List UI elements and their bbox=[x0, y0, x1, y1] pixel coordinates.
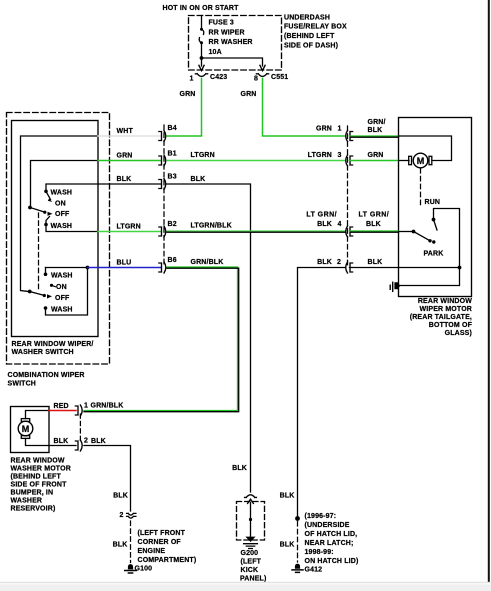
svg-text:(BEHIND LEFT: (BEHIND LEFT bbox=[284, 33, 335, 40]
upper switch link OFF to WASH bottom bbox=[46, 217, 50, 224]
svg-text:GRN: GRN bbox=[241, 91, 257, 98]
svg-text:(UNDERSIDE: (UNDERSIDE bbox=[305, 522, 350, 529]
combination switch label bbox=[8, 372, 85, 388]
rear window wiper motor box bbox=[399, 118, 472, 297]
svg-text:4: 4 bbox=[337, 221, 341, 228]
lower switch top rail bbox=[46, 267, 88, 269]
pin 1 label bbox=[190, 76, 194, 83]
junction node bbox=[200, 56, 204, 60]
wire pin4 black companion bbox=[351, 231, 399, 233]
fuse/relay box (dashed) bbox=[189, 16, 282, 71]
svg-text:BLK: BLK bbox=[232, 465, 247, 472]
label LTGRN bbox=[117, 224, 141, 231]
svg-text:BLK: BLK bbox=[368, 259, 383, 266]
internal wire washer feed bottom bbox=[46, 225, 98, 232]
label G412 bbox=[305, 567, 323, 574]
wiper motor M1 bbox=[409, 153, 432, 168]
upper switch arm bbox=[30, 208, 53, 216]
label LTGRN 3 bbox=[308, 152, 342, 159]
svg-text:C551: C551 bbox=[271, 74, 288, 81]
svg-text:UNDERDASH: UNDERDASH bbox=[284, 14, 330, 21]
internal wire motor+ to RED bbox=[26, 411, 50, 419]
svg-text:SIDE OF DASH): SIDE OF DASH) bbox=[284, 42, 338, 49]
svg-text:GRN: GRN bbox=[117, 153, 133, 160]
svg-text:GRN/BLK: GRN/BLK bbox=[91, 403, 124, 410]
wire GRN B4 to C423 bbox=[167, 135, 202, 137]
internal wire pin3 to motor left brush bbox=[399, 160, 410, 162]
svg-text:PANEL): PANEL) bbox=[240, 576, 266, 583]
wire BLK switch to B3 bbox=[98, 183, 161, 185]
connector C551 label bbox=[271, 74, 288, 81]
svg-text:B2: B2 bbox=[168, 221, 177, 228]
svg-text:WASH: WASH bbox=[51, 190, 73, 197]
wire BLK dashed to G100 bbox=[130, 521, 132, 563]
label BLK G100 upper bbox=[113, 493, 128, 500]
connector B1 bbox=[159, 151, 177, 167]
svg-text:RED: RED bbox=[54, 403, 69, 410]
lower switch contact WASH top bbox=[44, 268, 73, 280]
label G100 bbox=[135, 566, 153, 573]
internal wire to upper wiper pivot bbox=[31, 161, 99, 207]
wire WHT switch to B4 bbox=[98, 135, 161, 137]
pin 8 label bbox=[254, 76, 258, 83]
park switch arm bbox=[414, 232, 436, 244]
svg-text:2: 2 bbox=[337, 259, 341, 266]
svg-text:BLK: BLK bbox=[54, 438, 69, 445]
switch box label bbox=[12, 341, 94, 356]
inline connector C2 bbox=[127, 513, 136, 518]
svg-text:LT GRN/: LT GRN/ bbox=[306, 212, 337, 219]
label GRN/BLK after pin1 bbox=[368, 119, 386, 134]
label LTGRN after B1 bbox=[191, 152, 215, 159]
svg-text:BLK: BLK bbox=[191, 176, 206, 183]
washer motor M2 bbox=[18, 419, 33, 439]
internal wire pin4 to pivot bbox=[399, 231, 413, 233]
label GRN bbox=[117, 153, 133, 160]
wire GRN switch to B1 bbox=[98, 160, 161, 162]
svg-text:M: M bbox=[417, 156, 425, 166]
wire fuse to junction bbox=[201, 44, 203, 59]
svg-text:WASHER: WASHER bbox=[11, 498, 43, 505]
svg-text:BLU: BLU bbox=[117, 260, 132, 267]
connector C551 pin 8 cup bbox=[256, 74, 268, 77]
mechanical link motor to park switch bbox=[420, 169, 422, 208]
upper switch contact WASH bottom bbox=[44, 223, 72, 230]
connector pin 3 bbox=[346, 155, 353, 166]
svg-text:B1: B1 bbox=[168, 151, 177, 158]
label G200 bbox=[240, 550, 266, 583]
wire into G200 box bbox=[250, 503, 252, 537]
label BLU bbox=[117, 260, 132, 267]
wire BLK dashed to G412 bbox=[297, 522, 299, 563]
wire BLK pin2 internal bbox=[350, 267, 460, 269]
lower switch contact WASH bottom bbox=[44, 306, 73, 313]
svg-text:BLK: BLK bbox=[91, 438, 106, 445]
connector C423 label bbox=[210, 74, 227, 81]
svg-text:G100: G100 bbox=[135, 566, 153, 573]
rear window washer motor box bbox=[11, 407, 50, 453]
svg-text:CORNER OF: CORNER OF bbox=[138, 539, 182, 546]
label RED bbox=[54, 403, 69, 410]
svg-text:(BEHIND LEFT: (BEHIND LEFT bbox=[11, 474, 62, 481]
svg-text:GRN: GRN bbox=[180, 91, 196, 98]
svg-text:RUN: RUN bbox=[425, 199, 441, 206]
wire from box top to fuse bbox=[201, 16, 203, 29]
svg-text:KICK: KICK bbox=[241, 567, 259, 574]
upper switch contact WASH top bbox=[44, 190, 72, 197]
label PARK bbox=[424, 251, 444, 258]
svg-text:M: M bbox=[22, 424, 30, 434]
wire GRN/BLK pin1 (black companion) bbox=[351, 136, 399, 138]
lower switch contact OFF label bbox=[55, 295, 70, 302]
upper switch pivot node bbox=[28, 206, 32, 210]
label BLK 2 bbox=[317, 259, 341, 266]
svg-text:REAR WINDOW: REAR WINDOW bbox=[11, 458, 65, 465]
label GRN right bbox=[241, 91, 257, 98]
svg-text:B3: B3 bbox=[168, 174, 177, 181]
svg-text:HOT IN ON OR START: HOT IN ON OR START bbox=[163, 5, 240, 12]
node in G200 box bbox=[249, 518, 252, 521]
svg-text:FUSE/RELAY BOX: FUSE/RELAY BOX bbox=[284, 24, 347, 31]
label 2 inline connector bbox=[119, 512, 123, 519]
fuse F3 bbox=[199, 28, 204, 45]
label hatch lid note bbox=[305, 513, 359, 565]
node G412 split bbox=[295, 516, 300, 521]
svg-text:GLASS): GLASS) bbox=[445, 330, 472, 337]
connector G200 inline bbox=[245, 495, 257, 504]
run contact stub bbox=[434, 220, 438, 231]
svg-text:BLK: BLK bbox=[368, 127, 383, 134]
ground G100 bbox=[125, 564, 137, 573]
upper switch contact OFF label bbox=[55, 211, 70, 218]
svg-text:1998-99:: 1998-99: bbox=[305, 549, 334, 556]
svg-text:WASHER SWITCH: WASHER SWITCH bbox=[12, 349, 74, 356]
svg-text:BLK: BLK bbox=[280, 493, 295, 500]
washer motor box label bbox=[11, 458, 71, 513]
ground G412 bbox=[292, 564, 303, 573]
svg-text:BLK: BLK bbox=[366, 221, 381, 228]
lower switch pivot node bbox=[28, 290, 32, 294]
svg-text:GRN/: GRN/ bbox=[368, 119, 386, 126]
label GRN/BLK washer bbox=[91, 403, 124, 410]
svg-text:C423: C423 bbox=[210, 74, 227, 81]
wire LT GRN B1 to motor pin 3 bbox=[167, 160, 345, 162]
wire LT GRN/BLK B2 to motor pin 4 (black) bbox=[167, 231, 345, 233]
connector washer pin 2 bbox=[75, 438, 88, 452]
svg-text:WASH: WASH bbox=[51, 306, 73, 313]
washer connector dashed link bbox=[79, 414, 81, 441]
svg-text:GRN: GRN bbox=[316, 126, 332, 133]
svg-text:LT GRN/: LT GRN/ bbox=[359, 212, 390, 219]
svg-text:3: 3 bbox=[337, 152, 341, 159]
internal wire washer feed top bbox=[46, 184, 98, 190]
svg-text:WASH: WASH bbox=[51, 223, 73, 230]
label BLK G412 upper bbox=[280, 493, 295, 500]
svg-text:SWITCH: SWITCH bbox=[8, 381, 37, 388]
wire junction to pin 8 branch bbox=[202, 58, 263, 66]
connector C423 pin 1 cup bbox=[195, 74, 207, 77]
label BLK after pin2 bbox=[368, 259, 383, 266]
label BLK G412 lower bbox=[280, 542, 295, 549]
svg-text:BLK: BLK bbox=[117, 176, 132, 183]
svg-text:B6: B6 bbox=[168, 257, 177, 264]
svg-text:G200: G200 bbox=[241, 550, 259, 557]
run contact node bbox=[432, 218, 436, 222]
svg-text:REAR WINDOW WIPER/: REAR WINDOW WIPER/ bbox=[12, 341, 94, 348]
window chrome bottom strip bbox=[0, 582, 491, 591]
wire LT GRN/BLK B2 to motor pin 4 (green) bbox=[167, 230, 345, 232]
svg-text:ENGINE: ENGINE bbox=[138, 548, 166, 555]
label underdash fuse/relay box bbox=[284, 14, 347, 49]
connector washer pin 1 bbox=[75, 403, 88, 417]
svg-text:GRN/BLK: GRN/BLK bbox=[191, 259, 224, 266]
lower switch arm bbox=[30, 292, 52, 299]
svg-text:BUMPER, IN: BUMPER, IN bbox=[11, 490, 54, 497]
svg-text:OFF: OFF bbox=[55, 211, 70, 218]
svg-text:10A: 10A bbox=[209, 49, 222, 56]
svg-text:B4: B4 bbox=[168, 125, 177, 132]
svg-text:COMPARTMENT): COMPARTMENT) bbox=[138, 557, 197, 564]
svg-text:ON: ON bbox=[56, 284, 67, 291]
svg-text:LTGRN: LTGRN bbox=[191, 152, 215, 159]
arrow pin 1 bbox=[199, 65, 204, 70]
svg-text:BLK: BLK bbox=[280, 542, 295, 549]
svg-text:RR WASHER: RR WASHER bbox=[209, 39, 253, 46]
svg-text:RR WIPER: RR WIPER bbox=[209, 29, 245, 36]
svg-text:BOTTOM OF: BOTTOM OF bbox=[429, 322, 473, 329]
window chrome right edge bbox=[488, 0, 490, 582]
mechanical link dashed upper-lower bbox=[38, 213, 40, 291]
label GRN/BLK after B6 bbox=[191, 259, 224, 266]
lower switch contact ON bbox=[50, 284, 67, 291]
wire GRN/BLK B6 to washer (green) bbox=[84, 267, 238, 411]
connector B4 bbox=[159, 125, 177, 142]
connector B3 bbox=[159, 174, 177, 190]
svg-text:WHT: WHT bbox=[117, 128, 134, 135]
svg-text:(1996-97:: (1996-97: bbox=[305, 513, 337, 520]
svg-text:BLK: BLK bbox=[317, 259, 332, 266]
label GRN left bbox=[180, 91, 196, 98]
svg-text:2: 2 bbox=[119, 512, 123, 519]
ground G200 bbox=[244, 537, 258, 549]
connector B6 bbox=[159, 257, 177, 273]
svg-text:COMBINATION WIPER: COMBINATION WIPER bbox=[8, 372, 85, 379]
wire GRN C551 down bbox=[263, 79, 346, 137]
wire BLK washer to connector bbox=[49, 445, 76, 447]
svg-text:SIDE OF FRONT: SIDE OF FRONT bbox=[11, 482, 68, 489]
park switch pivot node bbox=[412, 230, 416, 234]
label LTGRN/BLK after B2 bbox=[191, 223, 232, 230]
svg-text:REAR WINDOW: REAR WINDOW bbox=[418, 298, 472, 305]
connector column dashed link B4-B6 bbox=[163, 125, 165, 267]
label BLK after pin2 bbox=[91, 438, 106, 445]
internal wire pin1 to motor right brush bbox=[399, 136, 452, 161]
svg-text:(LEFT FRONT: (LEFT FRONT bbox=[138, 530, 186, 537]
svg-text:2: 2 bbox=[84, 438, 88, 445]
svg-text:RESERVOIR): RESERVOIR) bbox=[11, 506, 56, 513]
svg-text:NEAR LATCH;: NEAR LATCH; bbox=[305, 540, 354, 547]
wire GRN C423 down bbox=[201, 79, 203, 136]
wire GRN/BLK B6 to washer (black) bbox=[84, 268, 239, 412]
connector pin 4 bbox=[346, 226, 353, 237]
svg-text:(LEFT: (LEFT bbox=[241, 559, 262, 566]
connector B2 bbox=[159, 221, 177, 237]
svg-text:1: 1 bbox=[190, 76, 194, 83]
label BLK washer bbox=[54, 438, 69, 445]
upper switch contact ON label bbox=[55, 201, 66, 208]
svg-text:ON: ON bbox=[55, 201, 66, 208]
svg-text:FUSE 3: FUSE 3 bbox=[209, 20, 234, 27]
svg-text:GRN: GRN bbox=[368, 152, 384, 159]
label LT GRN/BLK 4 bbox=[306, 212, 341, 229]
wire LT GRN/BLK pin4 to park pivot (green) bbox=[350, 230, 399, 232]
svg-text:BLK: BLK bbox=[113, 493, 128, 500]
svg-text:1: 1 bbox=[337, 126, 341, 133]
wire BLK B3 to G200 branch bbox=[167, 184, 251, 492]
wire RED washer to connector bbox=[49, 410, 76, 412]
wiper motor box label bbox=[410, 298, 473, 337]
fuse value label bbox=[209, 20, 253, 57]
svg-text:BLK: BLK bbox=[113, 542, 128, 549]
label BLK G100 lower bbox=[113, 542, 128, 549]
connector pin 2 bbox=[346, 262, 353, 273]
svg-text:PARK: PARK bbox=[424, 251, 444, 258]
wire junction down to pin 1 bbox=[201, 58, 203, 66]
case ground symbol bbox=[390, 282, 400, 291]
internal wire motor- to BLK bbox=[26, 439, 50, 446]
G200 dashed box bbox=[237, 502, 265, 541]
svg-text:LTGRN: LTGRN bbox=[308, 152, 332, 159]
label BLK bbox=[117, 176, 132, 183]
svg-text:8: 8 bbox=[254, 76, 258, 83]
node pin2/run junction bbox=[458, 266, 462, 270]
lower switch bottom rail to BLU junction bbox=[46, 268, 88, 316]
svg-text:BLK: BLK bbox=[317, 221, 332, 228]
label RUN bbox=[425, 199, 441, 206]
internal wire to case ground bbox=[399, 268, 460, 286]
motor connector dashed link bbox=[347, 126, 349, 267]
label WHT bbox=[117, 128, 134, 135]
wire BLU switch to B6 bbox=[88, 267, 161, 269]
svg-text:WASH: WASH bbox=[51, 273, 73, 280]
label left front corner bbox=[138, 530, 197, 564]
label GRN after pin3 bbox=[368, 152, 384, 159]
label HOT IN ON OR START bbox=[163, 5, 240, 12]
upper switch wiper arm to ON bbox=[47, 192, 53, 202]
svg-text:WASHER MOTOR: WASHER MOTOR bbox=[11, 466, 71, 473]
svg-text:1: 1 bbox=[84, 403, 88, 410]
arrow pin 8 bbox=[260, 65, 265, 70]
wire GRN pin3 to motor bbox=[350, 160, 399, 162]
svg-text:ON HATCH LID): ON HATCH LID) bbox=[305, 558, 359, 565]
internal wire run contact to BLK bbox=[434, 209, 460, 268]
connector pin 1 bbox=[346, 131, 353, 142]
label BLK G200 bbox=[232, 465, 247, 472]
label BLK after B3 bbox=[191, 176, 206, 183]
wire GRN/BLK pin1 to motor internal (green) bbox=[350, 135, 399, 137]
internal wire to lower wiper pivot bbox=[21, 136, 99, 292]
svg-text:OF HATCH LID,: OF HATCH LID, bbox=[305, 531, 358, 538]
label LT GRN/BLK after pin4 bbox=[359, 212, 390, 229]
label GRN 1 bbox=[316, 126, 342, 133]
svg-text:WIPER MOTOR: WIPER MOTOR bbox=[420, 306, 472, 313]
svg-text:G412: G412 bbox=[305, 567, 323, 574]
wire LT GRN switch to B2 bbox=[98, 231, 161, 233]
node BLU junction bbox=[86, 266, 90, 270]
svg-text:LTGRN: LTGRN bbox=[117, 224, 141, 231]
svg-text:(REAR TAILGATE,: (REAR TAILGATE, bbox=[410, 314, 472, 321]
wire BLK motor pin 2 to G412 branch bbox=[298, 268, 346, 519]
combination wiper switch box (dashed) bbox=[7, 113, 110, 365]
svg-text:LTGRN/BLK: LTGRN/BLK bbox=[191, 223, 232, 230]
svg-text:OFF: OFF bbox=[55, 295, 70, 302]
wire BLK washer to G100 bbox=[84, 446, 131, 512]
rear window wiper/washer switch box bbox=[12, 121, 99, 337]
